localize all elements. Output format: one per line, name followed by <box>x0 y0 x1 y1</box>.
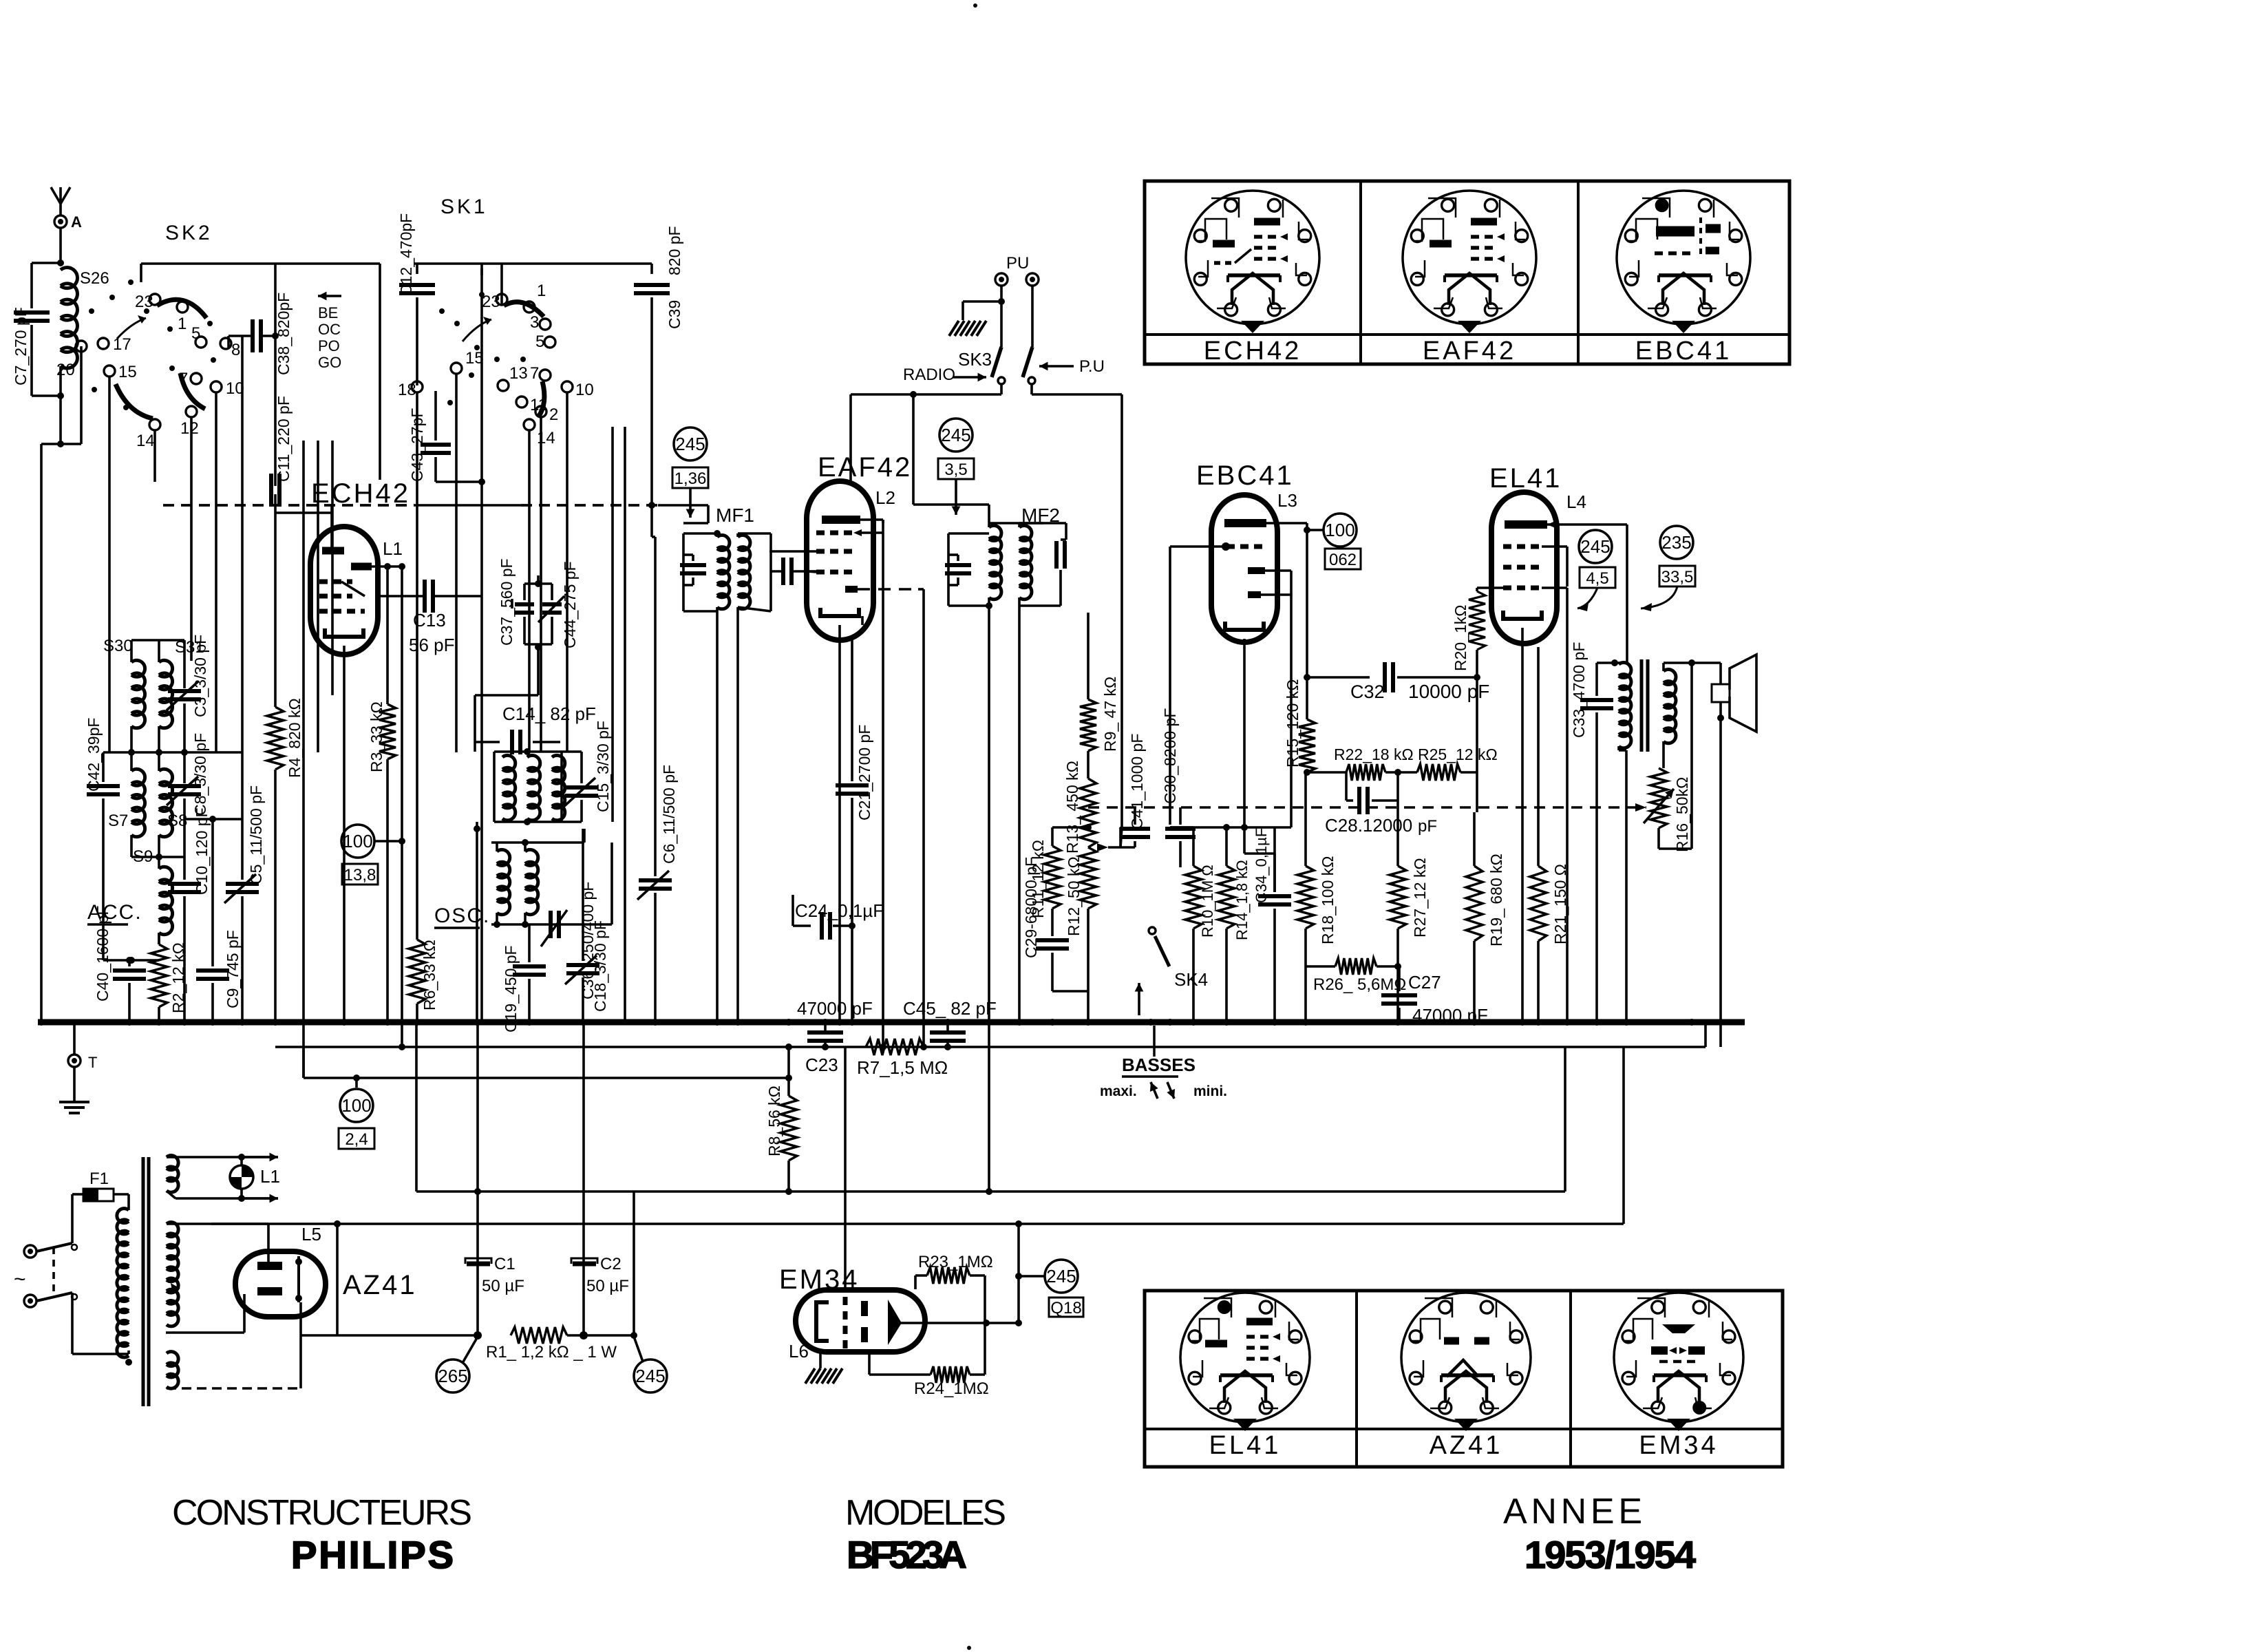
mains switch <box>36 1243 72 1251</box>
svg-text:C44_275 pF: C44_275 pF <box>561 561 579 648</box>
MF1 secondary <box>736 533 739 537</box>
svg-text:MODELES: MODELES <box>845 1493 1006 1533</box>
ECH42 grids <box>319 580 352 584</box>
svg-text:OC: OC <box>318 321 341 338</box>
svg-text:R18_100 kΩ: R18_100 kΩ <box>1319 856 1337 944</box>
svg-text:mini.: mini. <box>1193 1083 1227 1099</box>
svg-text:1: 1 <box>178 315 187 333</box>
svg-text:1: 1 <box>537 282 546 300</box>
svg-text:ANNEE: ANNEE <box>1503 1492 1642 1532</box>
capacitor C30 8200pF <box>1165 827 1196 831</box>
trimmer C18 3/30pF <box>582 829 584 961</box>
resistor R25 12k <box>1385 771 1417 774</box>
svg-text:C42_39pF: C42_39pF <box>85 718 103 792</box>
wire EBC41 plate down <box>1306 523 1308 719</box>
svg-text:C1: C1 <box>494 1255 516 1273</box>
svg-text:C33_4700 pF: C33_4700 pF <box>1570 642 1588 738</box>
svg-text:2,4: 2,4 <box>345 1130 368 1149</box>
sub rail y1778 <box>211 1222 1624 1225</box>
wire R11 top <box>1052 826 1088 829</box>
svg-text:R9_ 47 kΩ: R9_ 47 kΩ <box>1101 677 1119 752</box>
svg-text:OSC.: OSC. <box>434 904 490 927</box>
resistor R16 50k <box>1650 768 1667 828</box>
svg-text:100: 100 <box>341 1095 371 1116</box>
svg-text:265: 265 <box>438 1366 467 1386</box>
wire AVC to MF1 <box>707 505 710 523</box>
wire MF1 cap to EAF42 grid <box>807 570 816 573</box>
svg-text:14: 14 <box>537 429 555 447</box>
svg-text:245: 245 <box>1046 1266 1076 1286</box>
svg-text:5: 5 <box>535 332 544 351</box>
ground hatch PU <box>963 300 1001 303</box>
svg-text:PO: PO <box>318 337 340 354</box>
svg-text:20: 20 <box>56 361 75 379</box>
svg-text:S26: S26 <box>80 269 109 288</box>
transformer core <box>142 1157 145 1406</box>
wire EM34 plate to 245 <box>1017 1224 1020 1323</box>
svg-text:3: 3 <box>530 313 539 332</box>
resistor R18 100k <box>1304 772 1307 866</box>
svg-text:R22_18 kΩ: R22_18 kΩ <box>1334 745 1414 763</box>
svg-text:A: A <box>71 213 82 231</box>
EL41 leads <box>1542 545 1567 548</box>
wire node 1202 <box>1170 826 1291 829</box>
transformer primary <box>114 1193 129 1196</box>
resistor R14 1.8k <box>1225 827 1228 866</box>
wire to SK2 lower-left <box>61 443 81 445</box>
svg-text:245: 245 <box>1580 536 1610 557</box>
svg-text:R13_ 450 kΩ: R13_ 450 kΩ <box>1063 761 1081 854</box>
bus junction dots <box>38 1019 45 1026</box>
svg-text:100: 100 <box>343 831 372 851</box>
svg-text:R19_ 680 kΩ: R19_ 680 kΩ <box>1487 854 1505 946</box>
svg-text:R8_56 kΩ: R8_56 kΩ <box>765 1086 783 1156</box>
svg-text:C12_470pF: C12_470pF <box>397 213 415 296</box>
svg-text:CONSTRUCTEURS: CONSTRUCTEURS <box>172 1493 472 1533</box>
tube EAF42 <box>807 481 873 640</box>
svg-text:C9_745 pF: C9_745 pF <box>224 930 242 1008</box>
svg-text:R4_820 kΩ: R4_820 kΩ <box>286 698 304 778</box>
EAF42 anode bar <box>822 516 860 524</box>
SK1 contact dots <box>439 308 445 314</box>
valve socket box bottom <box>1145 1291 1783 1467</box>
transformer heater winding top <box>167 1156 178 1193</box>
svg-text:14: 14 <box>136 432 155 450</box>
ECH42 leads <box>330 505 333 551</box>
wire transformer primary bottom down <box>1625 750 1628 1022</box>
trimmer C5 11/500pF <box>241 819 244 880</box>
EBC41 diode plates <box>1248 567 1265 574</box>
svg-text:062: 062 <box>1329 551 1357 569</box>
capacitor C21 2700pF <box>851 640 853 781</box>
svg-text:~: ~ <box>14 1268 26 1291</box>
capacitor C13 56pF <box>423 580 427 613</box>
tube EBC41 <box>1211 495 1277 642</box>
resistor R3 33k <box>386 566 389 704</box>
capacitor C39 820pF <box>650 264 653 274</box>
resistor R10 1M <box>1192 827 1195 866</box>
resistor R13 450k <box>1087 751 1090 779</box>
capacitor C29 68000pF <box>1036 938 1069 942</box>
svg-text:C11_220 pF: C11_220 pF <box>275 396 293 482</box>
speaker <box>1712 684 1730 702</box>
capacitor C11 220pF <box>269 474 273 507</box>
svg-text:L2: L2 <box>875 487 895 508</box>
svg-text:L6: L6 <box>789 1341 809 1362</box>
ground bus <box>38 1019 1745 1026</box>
svg-text:R20_1kΩ: R20_1kΩ <box>1452 605 1469 671</box>
svg-text:EBC41: EBC41 <box>1635 337 1732 366</box>
svg-text:C5_11/500 pF: C5_11/500 pF <box>247 785 265 885</box>
svg-text:C14_ 82 pF: C14_ 82 pF <box>502 703 596 724</box>
capacitor C41 1000pF <box>1119 827 1122 847</box>
svg-text:C6_11/500 pF: C6_11/500 pF <box>660 765 678 864</box>
output transformer secondary <box>1662 670 1665 671</box>
svg-text:pF: pF <box>1418 817 1437 836</box>
wire ACC row <box>103 959 159 962</box>
socket EBC41 <box>1617 191 1750 324</box>
svg-text:EM34: EM34 <box>1639 1431 1718 1460</box>
oscillator coils block 2 <box>491 841 584 844</box>
svg-text:P.U: P.U <box>1079 357 1105 376</box>
svg-text:R7_1,5 MΩ: R7_1,5 MΩ <box>857 1057 948 1078</box>
capacitor C28 12000pF <box>1345 772 1348 801</box>
svg-text:1953/1954: 1953/1954 <box>1524 1533 1696 1576</box>
meter 100/062 <box>1307 529 1324 531</box>
svg-text:C32: C32 <box>1350 681 1385 702</box>
meter 245/3,5 to MF2 <box>939 419 973 452</box>
wire x441 bus to rail <box>302 1047 305 1078</box>
switch SK4 <box>1149 927 1156 934</box>
wire rail x584 screen <box>401 566 403 1047</box>
resistor R27 12k <box>1396 801 1399 866</box>
svg-text:R2_12 kΩ: R2_12 kΩ <box>169 942 187 1013</box>
resistor R22 18k <box>1307 771 1346 774</box>
AZ41 wiring <box>267 1224 270 1262</box>
svg-text:SK2: SK2 <box>165 222 213 244</box>
resistor R24 1M <box>931 1366 970 1383</box>
transformer HT winding <box>167 1222 178 1326</box>
svg-text:235: 235 <box>1661 532 1691 553</box>
registration marks <box>973 3 977 8</box>
sub rail y1521 <box>275 1046 1706 1048</box>
svg-text:S30: S30 <box>103 637 133 655</box>
EBC41 leads <box>1266 522 1307 525</box>
EAF42 small anode <box>845 586 858 593</box>
svg-text:ECH42: ECH42 <box>1204 337 1302 366</box>
trimmer C15 3/30pF <box>580 752 583 783</box>
trimmer C3 3/30pF <box>183 662 186 688</box>
capacitor C33 4700pF <box>1597 661 1619 664</box>
sub rail y1566 <box>304 1077 789 1079</box>
svg-text:SK4: SK4 <box>1174 969 1208 990</box>
resistor R23 1M <box>915 1274 927 1277</box>
EAF42 grid rows <box>816 531 853 536</box>
EL41 cathode <box>1503 611 1542 619</box>
svg-text:13: 13 <box>509 364 528 383</box>
wire rails SK2 to lower <box>302 441 305 1078</box>
svg-text:R12_50 kΩ: R12_50 kΩ <box>1065 856 1083 936</box>
svg-text:7: 7 <box>530 364 539 383</box>
coil S26 <box>61 268 77 368</box>
svg-text:50 µF: 50 µF <box>482 1277 524 1295</box>
R16 wiper arrow <box>1644 789 1674 823</box>
svg-text:1,36: 1,36 <box>674 469 707 488</box>
svg-text:23: 23 <box>482 293 500 311</box>
svg-text:47000 pF: 47000 pF <box>797 998 873 1019</box>
ECH42 anode bar <box>322 547 344 555</box>
AZ41 anode bars <box>257 1262 282 1270</box>
meter 245/4,5 EL41 <box>1579 530 1612 563</box>
resistor R4 820k <box>275 511 332 514</box>
meter 245/1,36 to MF1 <box>674 427 707 460</box>
svg-text:245: 245 <box>941 425 970 445</box>
svg-text:R15_120 kΩ: R15_120 kΩ <box>1284 679 1302 767</box>
meter 100 / 13.8 <box>341 825 374 858</box>
MF2 secondary <box>1018 523 1021 527</box>
ECH42 cathode <box>325 628 363 637</box>
svg-text:C29-68000 pF: C29-68000 pF <box>1022 857 1040 958</box>
EBC41 anode bar <box>1224 519 1266 527</box>
EL41 anode bar <box>1505 520 1547 529</box>
svg-text:R1_ 1,2 kΩ _ 1 W: R1_ 1,2 kΩ _ 1 W <box>486 1343 617 1362</box>
resistor R15 120k <box>1299 719 1315 772</box>
capacitor C43 27pF <box>434 391 437 441</box>
svg-text:BE: BE <box>318 304 338 321</box>
wire antenna to C7/S26 <box>59 228 62 263</box>
meter 245 right of R1 <box>634 1359 667 1392</box>
svg-text:17: 17 <box>113 335 131 354</box>
SK2 rotation arrow <box>117 318 146 339</box>
svg-text:maxi.: maxi. <box>1100 1083 1137 1099</box>
valve socket box top <box>1145 181 1789 364</box>
tube EL41 <box>1491 492 1557 644</box>
svg-text:C27: C27 <box>1408 972 1441 993</box>
capacitor C32 10000pF <box>1307 676 1370 679</box>
svg-text:C7_270 pF: C7_270 pF <box>12 307 30 385</box>
svg-text:L1: L1 <box>383 538 403 559</box>
svg-text:C10_120 pF: C10_120 pF <box>193 807 211 895</box>
wire x605 bus to rail <box>415 1022 418 1192</box>
capacitor C38 820pF <box>251 319 255 352</box>
svg-text:C40_1600 pF: C40_1600 pF <box>94 906 111 1002</box>
SK1 rotation arrow <box>463 319 491 341</box>
MF2 leads down <box>988 623 990 1192</box>
svg-text:R23_1MΩ: R23_1MΩ <box>918 1253 993 1271</box>
svg-text:RADIO: RADIO <box>903 366 955 384</box>
wire left rail down <box>40 1021 43 1024</box>
svg-text:C15_3/30 pF: C15_3/30 pF <box>594 721 612 812</box>
capacitor C12 470pF <box>416 264 418 274</box>
capacitor C7 270pF <box>32 262 61 264</box>
svg-text:33,5: 33,5 <box>1661 568 1694 586</box>
SK3 wires down <box>1000 384 1003 394</box>
svg-text:BASSES: BASSES <box>1122 1055 1196 1075</box>
svg-text:100: 100 <box>1325 520 1354 540</box>
SK2 wires down <box>80 346 83 444</box>
svg-text:13,8: 13,8 <box>344 866 376 885</box>
svg-text:AZ41: AZ41 <box>343 1270 417 1300</box>
resistor R1 1.2k 1W <box>474 1331 482 1339</box>
SK2 contact dots <box>89 308 94 314</box>
svg-text:820 pF: 820 pF <box>666 226 683 275</box>
svg-text:C24_0,1µF: C24_0,1µF <box>795 900 884 921</box>
svg-text:3,5: 3,5 <box>944 460 967 479</box>
resistor R11 12k <box>1051 827 1054 846</box>
wire BASSES to bus <box>1153 1026 1156 1057</box>
SK1 wiper arcs <box>504 302 544 317</box>
output transformer core <box>1640 659 1644 752</box>
MF1 leads down <box>716 623 719 1022</box>
rail below S7/S8 <box>131 856 184 858</box>
heater supply wires <box>176 1156 278 1158</box>
svg-text:EAF42: EAF42 <box>818 452 912 483</box>
antenna A <box>51 187 70 204</box>
svg-text:BF523A: BF523A <box>847 1533 967 1576</box>
capacitor C40 1600pF <box>128 960 131 966</box>
AVC line <box>163 504 414 507</box>
resistor R8 56k <box>787 1047 790 1096</box>
svg-text:5: 5 <box>191 324 200 343</box>
EM34 leads <box>844 1047 847 1290</box>
svg-text:10: 10 <box>575 381 594 399</box>
svg-text:EBC41: EBC41 <box>1196 460 1294 491</box>
oscillator coils block 1 <box>494 750 562 753</box>
capacitors C37/C44 block <box>537 575 540 584</box>
socket ECH42 <box>1186 191 1319 324</box>
socket AZ41 <box>1401 1293 1531 1422</box>
trimmer C8 3/30pF <box>183 752 186 783</box>
wire screen rail x2277 <box>1566 588 1569 1022</box>
svg-text:R16_50kΩ: R16_50kΩ <box>1673 777 1691 852</box>
svg-text:C8_3/30 pF: C8_3/30 pF <box>191 733 209 816</box>
svg-text:EL41: EL41 <box>1489 463 1562 494</box>
svg-text:PHILIPS: PHILIPS <box>291 1533 454 1576</box>
wire speaker down <box>1690 663 1693 849</box>
resistor R2 12k <box>158 933 160 944</box>
svg-text:R27_12 kΩ: R27_12 kΩ <box>1411 858 1429 938</box>
svg-text:GO: GO <box>318 354 341 371</box>
svg-text:AZ41: AZ41 <box>1430 1431 1503 1460</box>
output transformer primary <box>1626 525 1628 663</box>
trimmer C10 120pF <box>183 857 186 880</box>
wire rail x693 <box>476 822 478 1022</box>
EL41 grid rows <box>1503 544 1542 549</box>
svg-text:R6_33 kΩ: R6_33 kΩ <box>421 940 438 1010</box>
volume dashed line <box>1088 806 1646 809</box>
svg-text:EL41: EL41 <box>1209 1431 1282 1460</box>
svg-text:R25_12 kΩ: R25_12 kΩ <box>1418 745 1498 763</box>
svg-text:R14_1,8 kΩ: R14_1,8 kΩ <box>1233 860 1251 940</box>
socket EAF42 <box>1403 191 1536 324</box>
resistor R7 1.5M <box>866 1039 924 1055</box>
svg-text:EAF42: EAF42 <box>1423 337 1516 366</box>
wire osc bottom <box>491 923 612 926</box>
ECH42 plate bar right <box>351 563 372 571</box>
capacitor C9 745pF <box>211 819 214 966</box>
capacitor C2 50uF <box>582 1022 585 1335</box>
padder C6 11/500pF <box>650 505 653 537</box>
band labels BE OC PO GO <box>318 295 341 297</box>
transformer heater winding bottom <box>167 1352 178 1389</box>
svg-text:15: 15 <box>118 363 137 381</box>
capacitor C42 39pF <box>102 752 105 782</box>
svg-text:245: 245 <box>635 1366 665 1386</box>
svg-text:C3_3/30 pF: C3_3/30 pF <box>191 635 209 717</box>
dial lamp L1 <box>230 1165 253 1189</box>
resistor R6 33k <box>416 392 418 940</box>
svg-text:L4: L4 <box>1566 491 1586 512</box>
svg-text:R24_1MΩ: R24_1MΩ <box>914 1379 989 1398</box>
svg-text:R3_33 kΩ: R3_33 kΩ <box>368 701 385 772</box>
SK1 contacts <box>496 294 507 305</box>
svg-text:C23: C23 <box>805 1055 838 1075</box>
node S30/S31 bottom rail <box>103 751 242 754</box>
svg-text:50 µF: 50 µF <box>586 1277 629 1295</box>
EAF42 leads <box>860 518 883 521</box>
EAF42 cathode <box>820 608 859 616</box>
svg-text:C21_2700 pF: C21_2700 pF <box>856 725 873 820</box>
resistor R19 680k <box>1476 772 1478 812</box>
svg-text:L5: L5 <box>301 1224 321 1245</box>
capacitor C19 450pF <box>528 924 531 962</box>
svg-text:Q18: Q18 <box>1050 1299 1081 1317</box>
capacitor C1 50uF <box>476 1022 479 1335</box>
meter 235/33,5 <box>1660 526 1693 559</box>
socket EM34 <box>1614 1293 1743 1422</box>
svg-text:C37_560 pF: C37_560 pF <box>498 558 516 646</box>
SK2 wiper arcs <box>157 299 206 318</box>
wire rail x400 <box>274 264 277 486</box>
svg-text:C34_0,1µF: C34_0,1µF <box>1253 828 1270 903</box>
svg-text:R10_1M Ω: R10_1M Ω <box>1199 865 1216 938</box>
wire rails SK1 to lower <box>611 427 614 822</box>
tube AZ41 rectifier <box>235 1251 326 1317</box>
svg-text:C45_ 82 pF: C45_ 82 pF <box>903 998 997 1019</box>
svg-text:4,5: 4,5 <box>1586 569 1608 588</box>
svg-text:8: 8 <box>231 341 240 359</box>
svg-text:MF1: MF1 <box>716 505 754 526</box>
resistor R9 47k <box>1087 613 1090 699</box>
svg-text:SK1: SK1 <box>440 195 488 218</box>
svg-text:SK3: SK3 <box>958 349 992 370</box>
svg-text:C28.12000: C28.12000 <box>1325 815 1412 836</box>
EM34 ground <box>819 1352 822 1368</box>
svg-text:L3: L3 <box>1277 490 1297 511</box>
EM34 grid dashed <box>843 1297 848 1349</box>
EM34 plates <box>861 1301 868 1316</box>
capacitor C27 47000pF <box>1381 993 1417 997</box>
svg-text:18: 18 <box>398 381 416 399</box>
svg-text:C39: C39 <box>666 300 683 329</box>
potentiometer R12 50k <box>1080 847 1096 909</box>
svg-text:12: 12 <box>180 419 199 438</box>
svg-text:C18_3/30 pF: C18_3/30 pF <box>591 920 609 1012</box>
tube ECH42 <box>310 527 378 655</box>
svg-text:S9: S9 <box>133 847 153 866</box>
svg-text:C41_1000 pF: C41_1000 pF <box>1128 734 1146 829</box>
EM34 cathode bracket <box>816 1302 829 1341</box>
ground terminal T <box>73 1025 76 1055</box>
EM34 target triangle <box>888 1300 902 1345</box>
svg-text:S7: S7 <box>108 812 128 830</box>
svg-text:C2: C2 <box>600 1255 621 1273</box>
svg-text:PU: PU <box>1006 254 1029 273</box>
svg-text:T: T <box>88 1054 97 1071</box>
wire AZ41 loop <box>336 1224 339 1335</box>
EBC41 cathode <box>1225 622 1264 630</box>
resistor R26 5.6M <box>1306 965 1335 968</box>
